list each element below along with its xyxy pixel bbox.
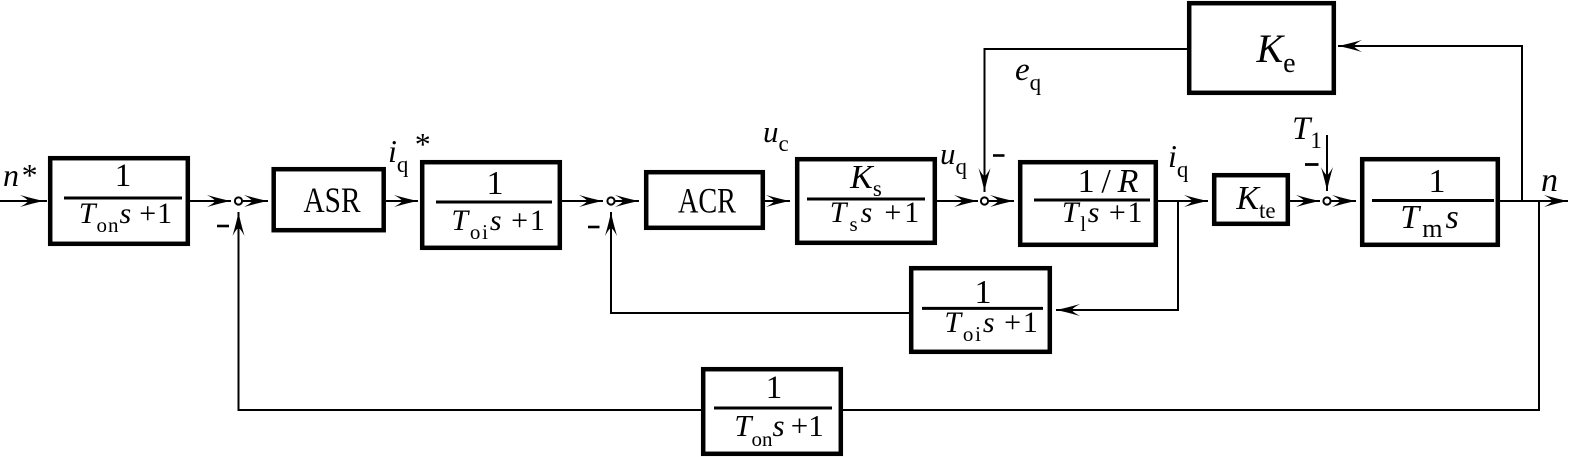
summing junction S3 bbox=[981, 197, 988, 204]
summing junction S4 bbox=[1323, 197, 1330, 204]
block G4: (1/R)/(T_l s+1) bbox=[1020, 162, 1156, 245]
wire: S2 to ACR bbox=[615, 195, 639, 207]
svg-text:1: 1 bbox=[115, 158, 132, 194]
wire: G7 output left and up into S1 bbox=[233, 212, 702, 410]
wire: G2 to summing junction S2 bbox=[562, 195, 603, 207]
label e_q bbox=[1015, 52, 1042, 95]
wire: G6 output left and up into S2 bbox=[605, 212, 909, 313]
svg-text:ASR: ASR bbox=[304, 180, 361, 220]
label T_1 load disturbance bbox=[1292, 111, 1322, 153]
block Ke bbox=[1189, 3, 1334, 93]
svg-text:iq: iq bbox=[1168, 138, 1189, 182]
wire: S4 to G5 bbox=[1332, 195, 1357, 207]
summing junction S2 bbox=[607, 197, 614, 204]
block G6: 1/(T_oi s+1) current feedback bbox=[911, 268, 1050, 352]
svg-text:1: 1 bbox=[1429, 163, 1446, 200]
block G1: 1/(T_on s+1) bbox=[50, 158, 188, 244]
wire: current feedback takeoff down from i_q line to G6 bbox=[1056, 201, 1178, 316]
block G5: 1/(T_m s) bbox=[1362, 159, 1498, 245]
wire: ACR to G3 bbox=[765, 195, 790, 207]
label n* input bbox=[3, 157, 38, 193]
block G2: 1/(T_oi s+1) bbox=[422, 162, 560, 248]
svg-text:1: 1 bbox=[766, 370, 783, 406]
wire: G4 to Kte (takeoff node at x=1178) bbox=[1158, 195, 1208, 207]
wire: takeoff up from output line to Ke bbox=[1338, 40, 1522, 202]
block ACR bbox=[646, 172, 763, 228]
label n output bbox=[1541, 162, 1558, 199]
wire: S1 to ASR bbox=[243, 195, 268, 207]
block G3: Ks/(Ts s+1) bbox=[797, 159, 935, 243]
wire: G3 to summing junction S3 bbox=[937, 195, 978, 207]
svg-text:Tois +1: Tois +1 bbox=[451, 204, 546, 244]
summing junction S1 bbox=[235, 197, 242, 204]
svg-text:ACR: ACR bbox=[678, 181, 736, 221]
label minus at S1 bbox=[217, 225, 229, 228]
label i_q* bbox=[388, 126, 431, 177]
label i_q bbox=[1168, 138, 1189, 182]
label u_q bbox=[940, 136, 968, 179]
wire: input n* to block G1 bbox=[0, 195, 47, 207]
wire: S3 to G4 bbox=[989, 195, 1014, 207]
svg-text:uc: uc bbox=[763, 114, 789, 156]
svg-text:T1: T1 bbox=[1292, 111, 1322, 153]
wire: takeoff down from output line to speed feedback G7 bbox=[843, 201, 1539, 410]
wire: Ke output e_q down into S3 bbox=[979, 49, 1188, 192]
svg-text:n: n bbox=[1541, 162, 1558, 199]
svg-text:1 / R: 1 / R bbox=[1078, 163, 1139, 200]
svg-text:Ke: Ke bbox=[1255, 26, 1295, 79]
svg-text:Tois +1: Tois +1 bbox=[944, 306, 1039, 346]
block ASR bbox=[274, 169, 384, 230]
label minus at S2 bbox=[588, 226, 600, 229]
svg-text:Ks: Ks bbox=[849, 159, 882, 201]
svg-text:Tss +1: Tss +1 bbox=[830, 196, 923, 236]
label u_c bbox=[763, 114, 789, 156]
svg-text:Tons +1: Tons +1 bbox=[734, 408, 824, 451]
svg-text:1: 1 bbox=[487, 165, 504, 202]
svg-text:Tms: Tms bbox=[1400, 199, 1461, 243]
svg-text:Tls +1: Tls +1 bbox=[1062, 196, 1144, 236]
wire: T_1 down into S4 bbox=[1321, 135, 1333, 191]
svg-text:eq: eq bbox=[1015, 52, 1042, 95]
label minus at S3 bbox=[993, 154, 1005, 157]
svg-text:Tons +1: Tons +1 bbox=[79, 197, 173, 237]
wire: Kte to summing junction S4 bbox=[1290, 195, 1320, 207]
svg-text:Kte: Kte bbox=[1235, 180, 1275, 223]
wire: G1 to summing junction S1 bbox=[190, 195, 231, 207]
wire: G5 to output n bbox=[1500, 195, 1568, 207]
block Kte bbox=[1214, 175, 1288, 224]
svg-text:n *: n * bbox=[3, 157, 38, 193]
svg-text:uq: uq bbox=[940, 136, 968, 179]
label minus at S4 bbox=[1305, 163, 1319, 166]
block G7: 1/(T_on s+1) bottom feedback bbox=[703, 369, 841, 454]
wire: ASR to G2 bbox=[386, 195, 418, 207]
